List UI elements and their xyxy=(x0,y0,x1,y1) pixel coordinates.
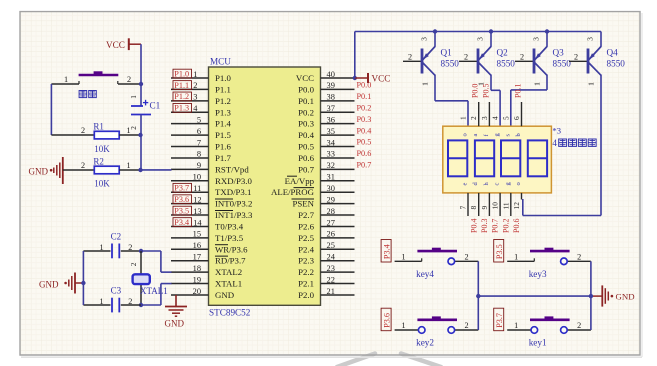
svg-text:7: 7 xyxy=(459,206,468,210)
svg-text:16: 16 xyxy=(193,241,201,250)
svg-text:6: 6 xyxy=(512,116,521,120)
svg-text:2: 2 xyxy=(574,53,578,62)
svg-text:2: 2 xyxy=(81,126,85,135)
svg-text:4: 4 xyxy=(491,116,500,120)
svg-text:Q4: Q4 xyxy=(607,48,619,58)
svg-text:5: 5 xyxy=(197,115,201,124)
svg-text:29: 29 xyxy=(327,195,335,204)
svg-text:9: 9 xyxy=(480,206,489,210)
svg-text:1: 1 xyxy=(533,82,542,86)
svg-text:P1.7: P1.7 xyxy=(215,153,231,163)
svg-text:TXD/P3.1: TXD/P3.1 xyxy=(215,187,251,197)
svg-text:T1/P3.5: T1/P3.5 xyxy=(215,233,244,243)
svg-text:C2: C2 xyxy=(111,232,122,242)
svg-text:1: 1 xyxy=(402,321,406,330)
svg-text:PSEN: PSEN xyxy=(292,199,314,209)
svg-text:P0.3: P0.3 xyxy=(357,115,372,124)
svg-text:P0.7: P0.7 xyxy=(491,219,500,233)
svg-text:P1.6: P1.6 xyxy=(215,142,231,152)
svg-text:1: 1 xyxy=(126,161,130,170)
svg-text:P0.0: P0.0 xyxy=(471,84,480,98)
svg-text:*3: *3 xyxy=(552,126,561,136)
svg-text:35: 35 xyxy=(327,127,335,136)
svg-text:1: 1 xyxy=(130,95,138,99)
svg-text:22: 22 xyxy=(327,275,335,284)
svg-text:XTAL1: XTAL1 xyxy=(215,279,242,289)
svg-text:6: 6 xyxy=(197,127,201,136)
svg-text:P0.1: P0.1 xyxy=(298,96,314,106)
svg-text:GND: GND xyxy=(215,290,234,300)
svg-text:8550: 8550 xyxy=(441,59,460,69)
svg-text:P1.3: P1.3 xyxy=(174,104,189,113)
svg-text:P2.5: P2.5 xyxy=(298,233,314,243)
svg-text:P0.2: P0.2 xyxy=(501,219,510,233)
svg-text:2: 2 xyxy=(130,126,138,130)
svg-text:25: 25 xyxy=(327,241,335,250)
svg-text:e: e xyxy=(462,183,469,186)
svg-text:30: 30 xyxy=(327,184,335,193)
svg-text:Q2: Q2 xyxy=(497,48,509,58)
svg-text:o: o xyxy=(462,133,469,136)
svg-text:23: 23 xyxy=(327,264,335,273)
svg-text:2: 2 xyxy=(130,262,138,266)
svg-text:2: 2 xyxy=(128,243,132,252)
svg-text:3: 3 xyxy=(420,37,429,41)
svg-text:GND: GND xyxy=(616,292,635,302)
svg-text:P0.6: P0.6 xyxy=(298,153,314,163)
svg-text:37: 37 xyxy=(327,104,335,113)
svg-text:3: 3 xyxy=(193,93,197,102)
svg-text:32: 32 xyxy=(327,161,335,170)
svg-text:3: 3 xyxy=(476,37,485,41)
svg-text:a: a xyxy=(472,134,479,137)
svg-text:P2.3: P2.3 xyxy=(298,256,314,266)
svg-text:1: 1 xyxy=(126,126,130,135)
svg-text:WR/P3.6: WR/P3.6 xyxy=(215,244,248,254)
svg-text:2: 2 xyxy=(81,161,85,170)
svg-text:12: 12 xyxy=(512,202,521,210)
svg-text:P3.4: P3.4 xyxy=(382,244,391,259)
svg-text:P0.6: P0.6 xyxy=(512,219,521,233)
svg-text:15: 15 xyxy=(193,230,201,239)
svg-text:2: 2 xyxy=(464,53,468,62)
svg-text:1: 1 xyxy=(421,82,430,86)
svg-text:18: 18 xyxy=(193,264,201,273)
svg-text:P0.3: P0.3 xyxy=(298,119,314,129)
svg-text:28: 28 xyxy=(327,207,335,216)
svg-text:3: 3 xyxy=(532,37,541,41)
svg-text:2: 2 xyxy=(193,81,197,90)
svg-text:P1.1: P1.1 xyxy=(215,84,231,94)
svg-text:RST/Vpd: RST/Vpd xyxy=(215,164,249,174)
svg-text:P0.7: P0.7 xyxy=(298,164,314,174)
svg-text:b: b xyxy=(515,133,522,136)
svg-text:RD/P3.7: RD/P3.7 xyxy=(215,256,246,266)
svg-text:2: 2 xyxy=(520,53,524,62)
svg-text:P3.5: P3.5 xyxy=(495,244,504,259)
svg-text:GND: GND xyxy=(39,279,59,289)
svg-text:XTAL2: XTAL2 xyxy=(215,267,242,277)
svg-text:P1.4: P1.4 xyxy=(215,119,231,129)
svg-text:key1: key1 xyxy=(529,338,547,348)
svg-text:MCU: MCU xyxy=(210,57,231,67)
svg-text:GND: GND xyxy=(165,319,185,329)
svg-text:P3.7: P3.7 xyxy=(495,313,504,328)
svg-text:8550: 8550 xyxy=(497,59,516,69)
svg-text:P0.4: P0.4 xyxy=(357,126,372,135)
svg-text:VCC: VCC xyxy=(296,73,314,83)
svg-text:P2.7: P2.7 xyxy=(298,210,314,220)
svg-text:P3.4: P3.4 xyxy=(174,218,189,227)
svg-text:10: 10 xyxy=(491,202,500,210)
svg-text:C1: C1 xyxy=(150,101,161,111)
svg-text:GND: GND xyxy=(29,166,49,176)
svg-text:P0.5: P0.5 xyxy=(481,84,490,98)
svg-text:9: 9 xyxy=(197,161,201,170)
svg-text:P3.7: P3.7 xyxy=(174,184,189,193)
svg-text:P2.6: P2.6 xyxy=(298,221,314,231)
svg-text:VCC: VCC xyxy=(372,73,391,83)
svg-text:RXD/P3.0: RXD/P3.0 xyxy=(215,176,253,186)
svg-text:R1: R1 xyxy=(93,122,104,132)
svg-text:STC89C52: STC89C52 xyxy=(209,308,251,318)
svg-text:P3.6: P3.6 xyxy=(174,195,189,204)
svg-text:1: 1 xyxy=(514,321,518,330)
svg-text:8: 8 xyxy=(197,150,201,159)
svg-text:INT0/P3.2: INT0/P3.2 xyxy=(215,199,252,209)
svg-text:P0.5: P0.5 xyxy=(298,142,314,152)
svg-text:1: 1 xyxy=(587,82,596,86)
svg-text:2: 2 xyxy=(469,116,478,120)
svg-text:4: 4 xyxy=(552,138,557,148)
svg-text:24: 24 xyxy=(327,253,336,262)
svg-text:5: 5 xyxy=(501,116,510,120)
svg-text:EA/Vpp: EA/Vpp xyxy=(285,176,315,186)
svg-text:P1.0: P1.0 xyxy=(215,73,231,83)
svg-text:R2: R2 xyxy=(93,156,104,166)
svg-text:ALE/PROG: ALE/PROG xyxy=(271,187,315,197)
svg-text:1: 1 xyxy=(402,252,406,261)
svg-text:2: 2 xyxy=(128,297,132,306)
svg-text:P2.2: P2.2 xyxy=(298,267,314,277)
svg-text:14: 14 xyxy=(193,218,202,227)
svg-text:2: 2 xyxy=(465,252,469,261)
svg-text:2: 2 xyxy=(577,252,581,261)
svg-text:Q3: Q3 xyxy=(553,48,565,58)
svg-text:1: 1 xyxy=(99,243,103,252)
svg-text:VCC: VCC xyxy=(106,40,125,50)
svg-text:P1.5: P1.5 xyxy=(215,130,231,140)
svg-text:12: 12 xyxy=(193,195,201,204)
svg-text:P0.2: P0.2 xyxy=(357,103,372,112)
svg-text:7: 7 xyxy=(197,138,201,147)
svg-text:17: 17 xyxy=(193,253,201,262)
svg-text:P0.6: P0.6 xyxy=(357,149,372,158)
svg-text:1: 1 xyxy=(459,116,468,120)
svg-text:T0/P3.4: T0/P3.4 xyxy=(215,221,244,231)
svg-text:3: 3 xyxy=(480,116,489,120)
svg-text:3: 3 xyxy=(586,37,595,41)
svg-text:1: 1 xyxy=(193,70,197,79)
svg-text:20: 20 xyxy=(193,287,201,296)
svg-text:Q1: Q1 xyxy=(441,48,453,58)
svg-text:40: 40 xyxy=(327,70,335,79)
svg-text:P0.4: P0.4 xyxy=(469,219,478,233)
svg-text:31: 31 xyxy=(327,173,335,182)
svg-text:8: 8 xyxy=(469,206,478,210)
svg-text:P3.5: P3.5 xyxy=(174,206,189,215)
svg-text:P1.3: P1.3 xyxy=(215,107,231,117)
svg-text:10K: 10K xyxy=(94,179,110,189)
svg-text:P0.1: P0.1 xyxy=(357,92,372,101)
svg-text:10K: 10K xyxy=(94,144,110,154)
svg-text:26: 26 xyxy=(327,230,335,239)
svg-text:2: 2 xyxy=(127,75,131,84)
svg-text:P3.6: P3.6 xyxy=(382,313,391,328)
svg-text:key2: key2 xyxy=(416,338,434,348)
svg-text:P0.5: P0.5 xyxy=(357,138,372,147)
svg-text:38: 38 xyxy=(327,93,335,102)
svg-text:o: o xyxy=(515,182,522,185)
svg-text:INT1/P3.3: INT1/P3.3 xyxy=(215,210,253,220)
svg-text:XTAL1: XTAL1 xyxy=(140,286,168,296)
svg-text:C3: C3 xyxy=(111,286,122,296)
svg-text:10: 10 xyxy=(193,173,201,182)
svg-text:c: c xyxy=(494,183,501,186)
svg-text:36: 36 xyxy=(327,115,335,124)
svg-text:P1.2: P1.2 xyxy=(215,96,231,106)
svg-text:P0.7: P0.7 xyxy=(357,161,372,170)
svg-text:P0.2: P0.2 xyxy=(298,107,314,117)
svg-text:P1.0: P1.0 xyxy=(174,69,189,78)
svg-text:2: 2 xyxy=(577,321,581,330)
svg-text:34: 34 xyxy=(327,138,336,147)
svg-text:P0.1: P0.1 xyxy=(514,84,523,98)
svg-text:13: 13 xyxy=(193,207,201,216)
svg-text:P1.2: P1.2 xyxy=(174,92,189,101)
svg-text:1: 1 xyxy=(99,297,103,306)
svg-text:21: 21 xyxy=(327,287,335,296)
svg-text:2: 2 xyxy=(408,53,412,62)
svg-text:2: 2 xyxy=(465,321,469,330)
svg-text:key4: key4 xyxy=(416,269,434,279)
svg-text:8550: 8550 xyxy=(607,59,626,69)
svg-text:P2.4: P2.4 xyxy=(298,244,314,254)
svg-text:key3: key3 xyxy=(529,269,547,279)
svg-text:1: 1 xyxy=(514,252,518,261)
svg-text:11: 11 xyxy=(501,202,510,209)
svg-text:11: 11 xyxy=(193,184,201,193)
svg-text:19: 19 xyxy=(193,275,201,284)
svg-text:P1.1: P1.1 xyxy=(174,81,189,90)
svg-text:P2.0: P2.0 xyxy=(298,290,314,300)
svg-text:1: 1 xyxy=(64,75,68,84)
svg-text:P2.1: P2.1 xyxy=(298,279,314,289)
svg-text:P0.0: P0.0 xyxy=(357,81,372,90)
svg-text:P0.3: P0.3 xyxy=(480,219,489,233)
svg-text:P0.0: P0.0 xyxy=(298,84,314,94)
svg-text:P0.4: P0.4 xyxy=(298,130,314,140)
svg-text:8550: 8550 xyxy=(553,59,572,69)
svg-text:39: 39 xyxy=(327,81,335,90)
svg-text:33: 33 xyxy=(327,150,335,159)
svg-text:27: 27 xyxy=(327,218,335,227)
